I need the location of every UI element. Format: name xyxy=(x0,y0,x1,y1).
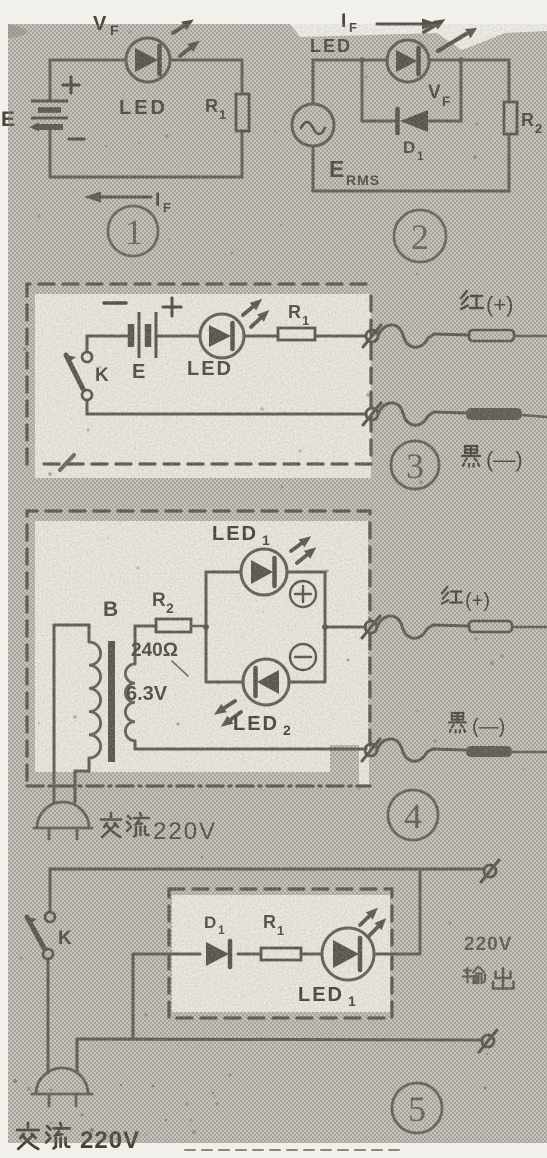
transformer B primary winding xyxy=(89,642,101,758)
minus polarity circle xyxy=(290,644,316,670)
LED1 xyxy=(322,928,374,980)
connector top right xyxy=(481,860,499,882)
switch K xyxy=(27,912,55,959)
circuit 2 outer loop wire xyxy=(313,60,509,191)
connector bottom xyxy=(363,403,381,425)
label IF top xyxy=(341,11,357,35)
label R2 xyxy=(521,110,542,136)
flexible wire red xyxy=(377,616,469,638)
flexible wire top xyxy=(378,325,469,347)
label LED2 xyxy=(233,713,291,738)
connector bottom right xyxy=(479,1030,497,1052)
circuit 5 white panel xyxy=(172,895,390,1012)
label black minus xyxy=(462,446,480,467)
resistor R1 xyxy=(236,94,249,131)
black probe xyxy=(466,408,547,420)
leader line xyxy=(172,661,188,676)
battery plus sign xyxy=(163,298,181,316)
resistor R1 xyxy=(261,948,301,960)
resistor R1 xyxy=(278,328,315,340)
transformer secondary winding xyxy=(125,664,135,741)
label R2 xyxy=(152,590,174,616)
red probe xyxy=(469,621,547,632)
resistor R2 xyxy=(504,102,517,134)
transformer core xyxy=(108,641,115,762)
label LED1 xyxy=(298,984,356,1009)
plus polarity circle xyxy=(290,581,316,607)
figure number 5 xyxy=(392,1083,442,1133)
label R1 xyxy=(205,96,226,122)
current IF arrow xyxy=(84,192,151,203)
LED1 light arrows xyxy=(357,904,390,939)
LED U2 xyxy=(387,40,429,82)
LED bridge wires xyxy=(206,572,366,682)
LED1 xyxy=(241,549,287,595)
node bridge right xyxy=(322,624,328,630)
circuit 4 dashed border xyxy=(27,511,370,780)
white top margin notch xyxy=(290,24,547,50)
diode D1 xyxy=(398,109,429,133)
label red plus xyxy=(461,291,483,309)
AC source ERMS xyxy=(292,104,334,146)
flexible wire bottom xyxy=(378,403,466,425)
scan smear under battery xyxy=(29,123,63,132)
circuit 3 main wire xyxy=(87,336,366,414)
node bridge left xyxy=(203,624,209,630)
figure number 2 xyxy=(394,210,446,262)
pen tick mark on border xyxy=(60,455,74,470)
transformer B primary wire xyxy=(54,625,89,802)
wire R2 to bridge xyxy=(191,625,206,628)
connector black output xyxy=(362,739,380,761)
label shuchu xyxy=(463,967,514,989)
label VF xyxy=(93,13,119,38)
label IF xyxy=(155,190,171,215)
circuit 5 dashed border xyxy=(169,889,392,1018)
battery E xyxy=(31,101,68,127)
faint next-figure dashes xyxy=(185,1149,400,1151)
label red plus 4 xyxy=(442,587,462,604)
LED2 xyxy=(243,659,289,705)
LED light arrows xyxy=(240,295,273,331)
LED2 light arrows xyxy=(211,697,244,731)
current IF arrow xyxy=(377,19,439,30)
scan smudge top left xyxy=(8,24,28,38)
LED U1 xyxy=(126,38,170,82)
label VF xyxy=(428,82,451,109)
circuit 5 wires xyxy=(48,869,484,1073)
label AC 220V bottom xyxy=(17,1123,70,1149)
LED1 light arrows xyxy=(288,532,320,567)
battery minus sign xyxy=(104,301,126,304)
battery minus sign xyxy=(69,138,84,141)
connector top xyxy=(363,325,381,347)
node right of LED branch xyxy=(458,57,464,63)
circuit 4 dash-dot bottom border xyxy=(27,784,370,787)
transformer secondary wires xyxy=(135,626,366,749)
label AC 220V xyxy=(101,813,149,837)
label ERMS xyxy=(329,156,380,188)
circuit 2 inner branch wire xyxy=(362,60,461,121)
red probe xyxy=(469,330,547,341)
switch K xyxy=(66,352,92,400)
label D1 xyxy=(403,138,424,163)
circuit 3 dashed border xyxy=(27,284,371,464)
label LED1 xyxy=(212,523,270,548)
resistor R2 xyxy=(156,619,191,632)
label black minus 4 xyxy=(449,713,466,732)
node left of LED branch xyxy=(359,57,365,63)
figure number 4 xyxy=(388,790,438,840)
figure number 1 xyxy=(108,206,158,256)
circuit 1 loop wire xyxy=(50,60,242,177)
mains plug xyxy=(32,1068,92,1106)
label R1 xyxy=(288,302,309,328)
mains plug xyxy=(34,802,92,839)
circuit 3 white panel xyxy=(35,294,371,478)
LED xyxy=(200,314,244,358)
connector red output xyxy=(362,616,380,638)
circuit 4 white panel xyxy=(35,521,368,772)
black probe xyxy=(466,746,547,757)
diode D1 xyxy=(206,941,230,967)
battery plus sign xyxy=(63,77,79,93)
flexible wire black xyxy=(377,739,466,761)
battery E horizontal xyxy=(131,312,156,358)
figure number 3 xyxy=(391,441,439,489)
LED light arrows xyxy=(170,15,203,60)
label D1 xyxy=(204,913,225,937)
label R1 xyxy=(263,912,284,938)
LED light arrows xyxy=(421,15,477,51)
